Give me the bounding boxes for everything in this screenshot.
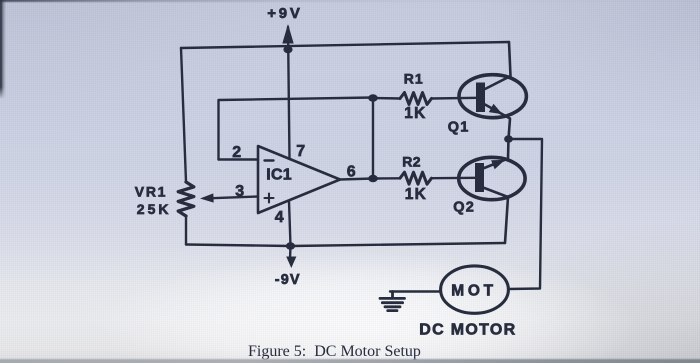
- wire feedback loop to pin 2: [219, 98, 374, 160]
- svg-text:4: 4: [275, 209, 284, 226]
- svg-text:-9V: -9V: [275, 272, 301, 288]
- node dot +9V rail: [283, 46, 292, 53]
- svg-text:Q2: Q2: [453, 200, 475, 216]
- svg-text:R2: R2: [402, 154, 421, 170]
- arrowhead VR1 wiper: [200, 193, 214, 202]
- svg-text:25K: 25K: [137, 201, 172, 217]
- resistor R2 1K: [400, 172, 432, 184]
- node dot -9V rail: [286, 242, 295, 249]
- svg-text:6: 6: [347, 164, 356, 181]
- ground symbol: [380, 292, 405, 311]
- wire motor to ground: [390, 290, 441, 292]
- svg-text:1K: 1K: [404, 105, 426, 122]
- wire pin 4 to -9V: [289, 201, 291, 259]
- wire pin 2 input: [219, 158, 259, 160]
- transistor Q1 circle: [459, 75, 526, 118]
- node dot R1/feedback: [368, 94, 378, 102]
- wire +9V to pin 7: [288, 27, 290, 159]
- svg-text:1K: 1K: [405, 186, 427, 203]
- wire R2 to Q2 base: [432, 177, 477, 180]
- op-amp minus input mark: [265, 159, 274, 161]
- potentiometer VR1 25K: [178, 182, 194, 216]
- svg-text:Q1: Q1: [448, 120, 470, 136]
- node dot output pin 6: [368, 175, 378, 183]
- wire R1 node: [373, 97, 400, 100]
- wire pin 3 to VR1 wiper: [205, 197, 258, 199]
- svg-text:MOT: MOT: [451, 283, 497, 300]
- motor M circle: [441, 266, 509, 313]
- node dot emitter junction: [504, 135, 513, 142]
- wire left rail (VR1 branch): [181, 48, 186, 245]
- Q1 base bar: [476, 83, 485, 113]
- wire Q1 collector riser: [485, 42, 511, 89]
- wire op-amp output node: [340, 178, 400, 179]
- arrowhead Q1 emitter: [489, 104, 503, 115]
- svg-text:+9V: +9V: [267, 5, 303, 22]
- op-amp U1 IC1 triangle: [258, 146, 340, 213]
- op-amp plus input mark: [265, 194, 274, 203]
- arrowhead -9V down: [286, 257, 296, 269]
- wire Q2 collector drop: [483, 188, 508, 244]
- svg-text:7: 7: [296, 143, 305, 160]
- wire R1 to Q1 base: [432, 97, 478, 100]
- wire Q2 emitter riser: [483, 139, 509, 169]
- wire emitter node to motor: [508, 139, 542, 289]
- svg-text:2: 2: [232, 144, 241, 161]
- arrowhead Q2 emitter: [491, 160, 505, 169]
- transistor Q2 circle: [459, 157, 525, 199]
- svg-text:R1: R1: [404, 71, 424, 87]
- svg-text:3: 3: [235, 183, 244, 200]
- arrowhead +9V up: [282, 24, 293, 44]
- wire bottom -9V rail: [186, 243, 505, 246]
- wire output to R1 node: [372, 98, 374, 179]
- wire top +9V rail: [181, 42, 509, 48]
- svg-text:IC1: IC1: [266, 167, 292, 184]
- resistor R1 1K: [400, 93, 432, 105]
- wire Q1 emitter drop: [485, 105, 510, 140]
- svg-text:DC MOTOR: DC MOTOR: [419, 322, 516, 339]
- Q2 base bar: [475, 163, 484, 192]
- svg-text:VR1: VR1: [135, 184, 167, 200]
